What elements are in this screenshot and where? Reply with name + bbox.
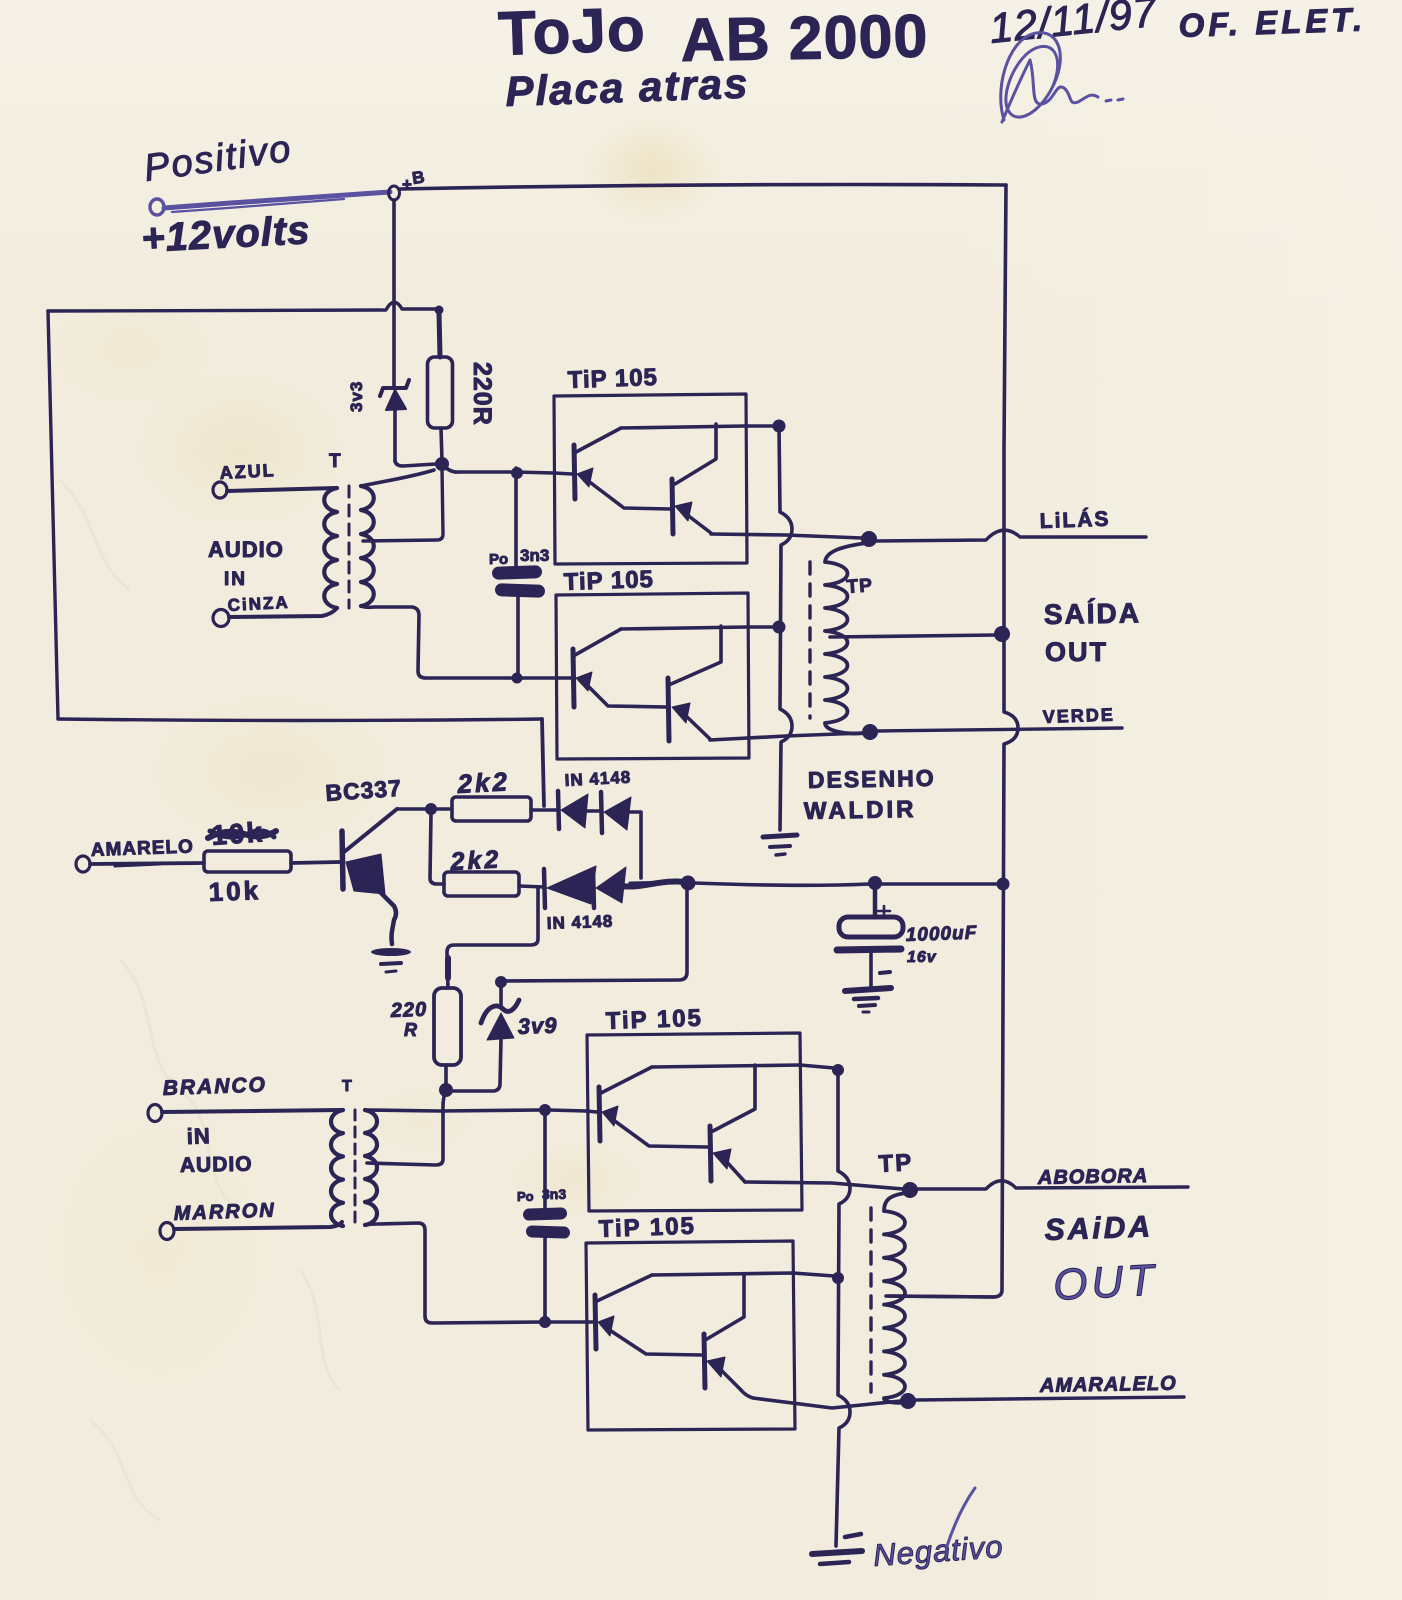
transformer T2 primary winding — [331, 1110, 343, 1226]
capacitor C2 1000uF 16V — [837, 888, 903, 988]
transformer T2 core — [354, 1110, 357, 1228]
transformer TP1 core — [808, 562, 811, 718]
transformer TP2 primary winding — [884, 1193, 906, 1403]
svg-text:Po: Po — [517, 1189, 534, 1204]
date "12/11/97" — [987, 0, 1160, 52]
svg-text:10k: 10k — [208, 875, 261, 907]
node bus/ wire junction — [997, 878, 1009, 890]
label "TP" (TP2) — [878, 1149, 914, 1178]
node C2 tap — [869, 877, 882, 890]
label "ABOBORA" — [1037, 1165, 1149, 1189]
label "LILAS" — [1039, 508, 1110, 533]
wire feedback box bottom — [58, 719, 542, 721]
wire VERDE output — [877, 728, 1122, 731]
svg-text:3n3: 3n3 — [520, 546, 549, 565]
label "10k" (scribbled out) — [208, 816, 276, 851]
label "3v9" — [517, 1013, 558, 1039]
node C1 bottom junction — [512, 673, 522, 683]
wire node A to U1 base (with C1 tap) — [442, 464, 572, 474]
label "SAIDA OUT" (lower) — [1044, 1210, 1159, 1310]
label "TiP 105" (U1) — [567, 364, 658, 394]
svg-text:TiP 105: TiP 105 — [605, 1005, 703, 1035]
svg-text:TP: TP — [846, 575, 874, 598]
label "AMARALELO" — [1039, 1373, 1177, 1397]
svg-text:AZUL: AZUL — [219, 460, 276, 483]
wire C3 junction to U3 base — [549, 1110, 597, 1112]
ground (Negativo) — [812, 1534, 862, 1564]
text "OF. ELET." — [1178, 0, 1367, 44]
svg-text:+12volts: +12volts — [140, 208, 311, 261]
label "AZUL" — [219, 460, 276, 483]
wire U2 emitter to TP1 bottom — [710, 733, 863, 740]
svg-text:3v3: 3v3 — [347, 381, 366, 412]
svg-text:TiP 105: TiP 105 — [598, 1213, 696, 1243]
darlington module U3 TIP105 box — [587, 1033, 802, 1211]
wire node B down to R5 — [430, 814, 444, 884]
node C3 top junction — [540, 1105, 551, 1116]
darlington module U2 TIP105 box — [556, 593, 749, 759]
ground (upper output stage) — [763, 835, 797, 855]
transformer TP1 primary winding — [825, 543, 866, 734]
svg-text:SAiDA: SAiDA — [1044, 1210, 1153, 1247]
node C1 top junction — [512, 468, 523, 479]
label "+12 volts" — [140, 208, 311, 261]
svg-text:IN: IN — [224, 569, 247, 590]
resistor R3 10k — [204, 851, 291, 872]
resistor R5 2k2 — [444, 872, 519, 896]
wire T1 secondary bottom to U2 base — [361, 606, 514, 678]
wire U1 collector rail to ground rail — [621, 426, 775, 428]
signature — [1001, 33, 1123, 122]
wire TP1 center tap to bus — [830, 635, 996, 637]
label "IN 4148" (row 2) — [546, 912, 613, 933]
wire T2 secondary top to U3 base (crosses node D drop) — [365, 1110, 541, 1111]
wire D3 down to node C — [629, 812, 641, 878]
wire collector ground rail lower (hops over emitter wires) — [836, 1070, 850, 1546]
wire TP2 center tap to bus corner — [886, 1296, 995, 1297]
svg-text:2k2: 2k2 — [449, 845, 502, 876]
label "BC337" — [325, 775, 403, 806]
resistor R1 220R — [428, 306, 453, 461]
svg-text:2k2: 2k2 — [456, 766, 511, 799]
node TP1 center tap / bus — [995, 627, 1010, 642]
label "Positivo" — [141, 128, 294, 190]
label "220 R" — [389, 999, 427, 1040]
wire ABOBORA output (hop over bus) — [917, 1181, 1188, 1189]
wire +B node down to zener — [392, 200, 396, 386]
node TP2 top junction — [903, 1183, 918, 1198]
svg-text:ABOBORA: ABOBORA — [1037, 1165, 1149, 1189]
wire C3 junction to U4 base — [549, 1320, 593, 1324]
label "Po 3n3" (C3) — [517, 1186, 566, 1204]
svg-text:AMARALELO: AMARALELO — [1039, 1373, 1177, 1397]
label "AUDIO IN" — [208, 537, 284, 590]
wire R3 to BC337 base — [291, 862, 340, 863]
label "CINZA" — [227, 593, 290, 615]
svg-text:IN 4148: IN 4148 — [564, 768, 631, 790]
svg-text:3v9: 3v9 — [517, 1013, 558, 1039]
svg-text:SAÍDA: SAÍDA — [1044, 597, 1142, 630]
label "MARRON" — [173, 1199, 276, 1225]
wire BC337 collector to node B — [397, 807, 427, 811]
wire zener top to node C — [501, 890, 687, 981]
node C3 bottom junction — [540, 1317, 551, 1328]
wire T1 secondary top to node A — [361, 470, 434, 486]
label "TiP 105" (U3) — [605, 1005, 703, 1035]
title "ToJo AB 2000" — [497, 0, 929, 74]
ground (BC337 emitter) — [371, 948, 411, 972]
terminal CINZA — [213, 610, 229, 627]
transistor Q4b (U4 output) — [704, 1274, 744, 1390]
wire AMARALELO output — [916, 1397, 1184, 1400]
wire BRANCO to T2 primary — [162, 1110, 342, 1112]
svg-text:BRANCO: BRANCO — [162, 1073, 267, 1100]
node TP1 top junction — [862, 532, 877, 547]
resistor R4 2k2 — [452, 797, 531, 821]
label "10k" — [208, 875, 261, 907]
node B (collector junction) — [426, 804, 437, 815]
transistor Q4a (U4 input) — [595, 1275, 701, 1355]
svg-text:TP: TP — [878, 1149, 914, 1178]
svg-text:+: + — [402, 175, 412, 194]
capacitor C1 Po 3n3 — [492, 468, 545, 676]
label "3v3" — [347, 381, 366, 412]
label "2k2" (R4) — [456, 766, 511, 799]
transistor Q1a (U1 input) — [574, 428, 670, 509]
svg-text:Po: Po — [489, 551, 508, 568]
terminal Positivo input — [150, 199, 164, 215]
svg-text:OF. ELET.: OF. ELET. — [1178, 0, 1367, 44]
svg-text:1000uF: 1000uF — [905, 923, 978, 946]
transistor Q1b (U1 output) — [672, 424, 716, 534]
wire U3 collector rail to ground rail — [652, 1065, 834, 1068]
svg-text:AUDIO: AUDIO — [180, 1153, 253, 1177]
wire U4 collector rail to ground rail — [652, 1273, 834, 1276]
terminal AZUL — [213, 482, 227, 498]
node U3 collector/rail — [833, 1065, 844, 1076]
node TP1 bottom junction — [863, 725, 878, 740]
transformer TP2 core — [869, 1208, 872, 1392]
label "TP" (TP1) — [846, 575, 874, 598]
terminal BRANCO — [148, 1105, 162, 1122]
wire collector ground rail upper (hops over emitter wires) — [779, 426, 792, 830]
svg-text:AUDIO: AUDIO — [208, 537, 284, 562]
wire tap (before D4) down to R2 — [447, 887, 538, 988]
label "TiP 105" (U4) — [598, 1213, 696, 1243]
darlington module U1 TIP105 box — [554, 394, 747, 564]
wire +B top rail to bus — [400, 185, 1006, 190]
wire D4 to D5 — [590, 886, 594, 890]
label "DESENHO WALDIR" — [804, 765, 936, 825]
label "AMARELO" — [90, 836, 194, 861]
diode D3 IN4148 — [601, 792, 631, 833]
wire feedback box right drop to diode row — [542, 719, 544, 806]
svg-text:220R: 220R — [468, 362, 496, 426]
label "T" (T1) — [329, 451, 341, 472]
label "Po 3n3" (C1) — [489, 546, 549, 568]
diode D5 IN4148 — [593, 867, 626, 908]
transformer T1 secondary winding — [361, 486, 374, 606]
wire feedback box top (hop over +B drop) — [48, 302, 437, 311]
subtitle "Placa atras" — [505, 60, 750, 115]
svg-text:ToJo: ToJo — [497, 0, 647, 69]
label "VERDE" — [1042, 704, 1115, 727]
svg-text:OUT: OUT — [1052, 1256, 1159, 1310]
svg-text:T: T — [329, 451, 341, 472]
label "IN AUDIO" — [180, 1123, 253, 1177]
svg-text:OUT: OUT — [1045, 637, 1108, 667]
transformer T1 primary winding — [324, 488, 337, 608]
node C (diode output junction) — [681, 876, 695, 890]
wire node D to zener bottom — [452, 1040, 501, 1091]
ground (C2) — [845, 988, 891, 1012]
label "Negativo" — [872, 1488, 1004, 1573]
wire zener to node A — [395, 461, 436, 466]
capacitor C3 Po 3n3 — [523, 1114, 570, 1318]
svg-text:LiLÁS: LiLÁS — [1039, 508, 1110, 533]
wire U1 emitter to TP1 top — [711, 534, 862, 538]
resistor R2 220R — [434, 988, 461, 1065]
svg-text:3n3: 3n3 — [542, 1186, 566, 1202]
wire R4 to D2 — [531, 808, 557, 812]
node TP2 bottom junction — [901, 1394, 916, 1409]
node zener top — [496, 977, 507, 988]
transformer T2 secondary winding — [365, 1110, 377, 1225]
wire main +12V bus (right vertical, hop at VERDE) — [888, 185, 1018, 1297]
wire C1 junction to U2 base — [517, 676, 571, 680]
svg-text:IN 4148: IN 4148 — [546, 912, 613, 933]
wire node B to R4 — [436, 807, 452, 811]
svg-text:iN: iN — [186, 1123, 211, 1149]
svg-text:CiNZA: CiNZA — [227, 593, 290, 615]
svg-text:VERDE: VERDE — [1042, 704, 1115, 727]
svg-text:16v: 16v — [907, 949, 937, 966]
diode D4 IN4148 — [544, 866, 596, 908]
svg-text:WALDIR: WALDIR — [804, 796, 917, 825]
wire U3 emitter to TP2 top — [745, 1182, 903, 1189]
svg-text:TiP 105: TiP 105 — [563, 566, 654, 596]
wire U4 emitter to TP2 bottom — [741, 1390, 901, 1408]
transistor Q3a (U3 input) — [599, 1067, 707, 1147]
label "2k2" (R5) — [449, 845, 502, 876]
wire R2 to node D — [444, 1065, 448, 1084]
node U2 collector/rail — [773, 621, 785, 633]
transistor Q3b (U3 output) — [710, 1065, 755, 1182]
label "220R" (rotated) — [468, 362, 496, 426]
zener D6 3v9 — [481, 985, 519, 1040]
wire feedback box left — [48, 311, 58, 719]
svg-text:T: T — [342, 1078, 352, 1095]
label "SAIDA OUT" (upper) — [1044, 597, 1142, 667]
transistor Q2b (U2 output) — [668, 626, 721, 741]
transformer T1 core — [348, 486, 351, 608]
label "TiP 105" (U2) — [563, 566, 654, 596]
wire node D to T2 secondary tap — [367, 1090, 446, 1165]
wire R5 to D4 (tap junction) — [519, 886, 544, 887]
label "BRANCO" — [162, 1073, 267, 1100]
transistor Q2a (U2 input) — [573, 629, 666, 707]
label "T" (T2) — [342, 1078, 352, 1095]
wire Positivo terminal to +B node — [164, 192, 390, 212]
terminal MARRON — [160, 1223, 174, 1240]
svg-text:BC337: BC337 — [325, 775, 403, 806]
svg-text:R: R — [404, 1020, 417, 1040]
wire T2 secondary bottom to U4 base — [365, 1223, 541, 1323]
wire LILAS output (hop over bus) — [876, 530, 1146, 541]
svg-text:AMARELO: AMARELO — [90, 836, 194, 861]
diode D2 IN4148 — [558, 791, 588, 829]
wire U2 collector rail to ground rail — [621, 627, 774, 629]
wire node C to bus (with C2 tap) — [694, 883, 1000, 885]
wire D2 to D3 — [586, 809, 601, 813]
node U1 collector/rail — [773, 420, 785, 432]
svg-text:220: 220 — [389, 999, 427, 1022]
svg-text:B: B — [411, 167, 426, 188]
node U4 collector/rail — [833, 1273, 844, 1284]
svg-text:MARRON: MARRON — [173, 1199, 276, 1225]
zener D1 3v3 — [380, 380, 409, 461]
terminal AMARELO — [76, 856, 90, 872]
label "IN4148" (row 1) — [564, 768, 631, 790]
label "1000uF 16v" — [905, 923, 978, 966]
node +B — [389, 186, 400, 200]
wire D5 to node C (thick retrace) — [622, 881, 684, 886]
svg-text:TiP 105: TiP 105 — [567, 364, 658, 394]
svg-text:DESENHO: DESENHO — [808, 765, 936, 793]
wire AZUL to T1 primary — [227, 488, 336, 491]
darlington module U4 TIP105 box — [586, 1241, 795, 1430]
node A (junction zener/R1/T1) — [436, 458, 449, 471]
label "+B" — [402, 167, 426, 194]
svg-text:Placa atras: Placa atras — [505, 60, 750, 115]
transistor Q5 BC337 — [342, 809, 397, 944]
node D (R2/zener junction) — [440, 1084, 453, 1097]
wire CINZA to T1 primary — [229, 608, 337, 617]
wire T1 secondary tap to node A — [363, 468, 443, 541]
wire MARRON to T2 primary — [174, 1222, 342, 1229]
wire AMARELO to R3 — [90, 863, 204, 866]
